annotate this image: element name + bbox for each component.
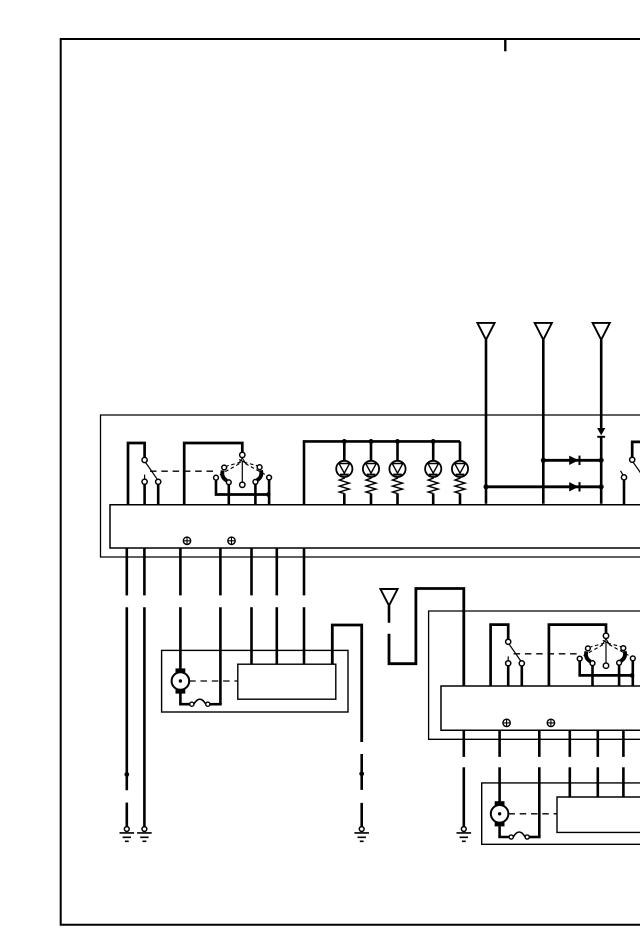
- rotary SW2 right wiper top contact: [621, 646, 626, 651]
- wire V4 upper: [568, 730, 571, 757]
- wire W7 lower: [303, 607, 306, 664]
- node W1 splice dot: [124, 772, 129, 777]
- wire ground lead lower: [360, 803, 363, 827]
- switch S1 contact stub: [144, 475, 146, 479]
- wire top-tick: [504, 39, 506, 51]
- wire W1 middle: [126, 607, 129, 790]
- rotary SW1 common contact: [240, 452, 245, 457]
- wire from A2 down: [542, 340, 545, 504]
- wire W1 lower: [126, 803, 129, 827]
- switch S2 feed wire (staple, clipped): [632, 442, 640, 457]
- rotary SW2 pivot marks: [602, 639, 609, 645]
- rotary SW1 right wiper (banana): [257, 470, 261, 480]
- rotary SW1 far right contact: [267, 475, 272, 480]
- connector triangle A4: [380, 589, 397, 606]
- wire SW1 left wiper to connector: [228, 485, 231, 505]
- wire SW2 right wiper to connector: [618, 665, 621, 686]
- circuit breaker CB2: [509, 832, 529, 839]
- rotary SW2 dashed actuating rays: [583, 643, 630, 656]
- node bus dot L1: [342, 439, 347, 444]
- connector triangle A1: [477, 323, 494, 340]
- wire breaker to V3: [529, 836, 540, 839]
- wire V4 lower: [568, 767, 571, 797]
- component box (master switch outline): [101, 415, 640, 557]
- rotary SW1 dashed actuating rays: [219, 462, 266, 475]
- rotary SW2 center bottom contact: [603, 663, 608, 668]
- motor M2: [491, 801, 509, 826]
- rotary SW1 right wiper top contact: [257, 465, 262, 470]
- rotary SW1 right wiper bottom contact: [253, 480, 258, 485]
- wire W2 lower: [143, 607, 146, 826]
- diode D1 (pointing right): [569, 456, 578, 465]
- wire V5 lower: [596, 767, 599, 797]
- switch S2 blade: [633, 462, 640, 478]
- connector bar (rear): [441, 686, 640, 730]
- rotary SW1 left wiper bottom contact: [226, 480, 231, 485]
- wire S3 left throw to connector: [507, 666, 510, 686]
- LED L3 with resistor R3: [389, 441, 405, 504]
- connector bar (middle): [110, 505, 640, 548]
- rotary SW2 right wiper bottom contact: [617, 660, 622, 665]
- connector triangle A3: [593, 323, 610, 340]
- wire V1 lower: [462, 767, 465, 826]
- rotary switch SW1 feed wire (staple): [184, 443, 242, 505]
- terminal screw B2: [228, 537, 235, 544]
- wire SW2 left wiper to connector: [591, 666, 594, 686]
- wire V3 lower to breaker: [538, 767, 541, 837]
- rotary switch SW2 feed wire (staple): [549, 625, 606, 686]
- rotary SW1 center bottom contact: [240, 482, 245, 487]
- wire from A1 down to junction row: [485, 340, 488, 504]
- LED L1 with resistor R1: [336, 441, 352, 504]
- wire S1 left throw to connector: [143, 484, 146, 504]
- node ground lead splice dot: [359, 771, 364, 776]
- wire W7 upper: [303, 548, 306, 595]
- wire W3 lower to motor: [179, 607, 182, 669]
- wire V2 lower to motor: [498, 767, 501, 802]
- rotary SW1 far left contact: [214, 475, 219, 480]
- component box (motor unit 1): [162, 650, 348, 712]
- switch S3 common contact: [506, 639, 511, 644]
- switch S2 contact stub: [621, 471, 623, 475]
- wire W3 upper: [179, 548, 182, 595]
- wire W2 upper: [143, 548, 146, 595]
- ground G2: [137, 827, 152, 842]
- motor M1: [172, 668, 190, 693]
- control unit U2 (clipped): [557, 797, 640, 832]
- switch S1 throw contact left: [142, 479, 147, 484]
- wire SW2 far-right contact to connector: [631, 661, 634, 686]
- LED L5 with resistor R5: [452, 441, 468, 504]
- terminal screw B1: [183, 537, 190, 544]
- rotary SW2 common contact: [603, 633, 608, 638]
- wire W1 upper: [126, 548, 129, 595]
- wire S2 throw to connector: [623, 480, 626, 505]
- rotary SW2 center stem: [605, 641, 607, 663]
- component box (motor unit 2, clipped): [482, 783, 640, 844]
- LED L2 with resistor R2: [363, 441, 379, 504]
- rotary SW2 left wiper top contact: [586, 646, 591, 651]
- wire U1 output staple to ground lead: [332, 625, 361, 742]
- rotary SW2 far left contact: [577, 656, 582, 661]
- ground G4: [457, 827, 472, 842]
- switch S2 common contact: [630, 457, 635, 462]
- wire from A4 to rear block (Z route): [389, 589, 464, 687]
- rotary SW1 center stem: [241, 461, 243, 483]
- wire from A3 down (upper part): [600, 340, 603, 429]
- switch S2 throw contact: [621, 475, 626, 480]
- node junction dot: [599, 484, 604, 489]
- wire V6 lower: [622, 767, 625, 797]
- switch S1 throw contact right: [156, 479, 161, 484]
- rotary SW2 far right contact: [630, 656, 635, 661]
- wire LED supply bus: [304, 441, 460, 504]
- wire SW2 far-left contact to bus: [578, 661, 581, 674]
- diode D3 (cathode down): [597, 428, 605, 435]
- wire horizontal with diode D1: [543, 459, 601, 462]
- switch S3 feed wire (staple): [491, 625, 509, 686]
- rotary SW1 left wiper top contact: [222, 465, 227, 470]
- rotary SW1 left wiper (banana): [222, 471, 227, 481]
- wire M1 to breaker: [180, 694, 189, 705]
- terminal screw B4: [547, 719, 554, 726]
- wire SW1 far-left contact to bus: [215, 480, 218, 493]
- control unit U1: [238, 664, 336, 699]
- wire W5 upper: [250, 548, 253, 595]
- dashed mechanical link S1 to SW1: [150, 470, 217, 472]
- wire SW2 bottom bus: [578, 674, 634, 677]
- rotary SW2 left wiper bottom contact: [590, 661, 595, 666]
- LED L4 with resistor R4: [425, 441, 441, 504]
- wire V2 upper: [498, 730, 501, 757]
- wire W4 lower to breaker: [219, 607, 222, 704]
- wire W4 upper: [219, 548, 222, 595]
- dashed mechanical link S3 to SW2: [514, 653, 581, 655]
- wire SW1 bottom bus: [215, 493, 271, 496]
- diode D2 (pointing right): [569, 482, 578, 491]
- wire V5 upper: [596, 730, 599, 757]
- node bus dot L2: [369, 439, 374, 444]
- connector triangle A2: [535, 323, 552, 340]
- component box (rear switch outline): [429, 611, 640, 739]
- switch S3 throw contact right: [519, 661, 524, 666]
- rotary SW1 pivot marks: [239, 458, 246, 464]
- wire SW1 right wiper to connector: [254, 484, 257, 504]
- node bus dot L4: [431, 439, 436, 444]
- ground G3: [354, 827, 369, 842]
- switch S1 common contact: [142, 457, 147, 462]
- wire from A4 upper: [388, 606, 391, 623]
- wire V3 upper: [538, 730, 541, 757]
- node junction dot: [541, 458, 546, 463]
- node junction dot: [484, 484, 489, 489]
- terminal screw B3: [503, 719, 510, 726]
- dashed mechanical link M1 to U1: [189, 680, 238, 682]
- node junction dot: [599, 458, 604, 463]
- switch S3 contact stub: [507, 656, 509, 660]
- switch S1 feed wire (staple): [128, 443, 145, 505]
- wire W6 lower: [275, 607, 278, 664]
- switch S3 blade: [509, 644, 521, 661]
- rotary SW2 left wiper (banana): [586, 652, 591, 662]
- wire S3 right throw to connector: [520, 666, 523, 686]
- node SW2 bus junction dot: [630, 673, 635, 678]
- wire breaker to W4: [210, 703, 222, 706]
- circuit breaker CB1: [190, 699, 210, 706]
- ground G1: [120, 827, 135, 842]
- wire W6 upper: [275, 548, 278, 595]
- wire SW1 far-right contact to connector: [268, 480, 271, 505]
- dashed mechanical link M2 to U2: [508, 813, 557, 815]
- wire M2 to breaker: [500, 826, 510, 837]
- wire ground lead middle: [360, 754, 363, 790]
- node SW1 bus junction dot: [266, 492, 271, 497]
- rotary SW2 right wiper (banana): [621, 651, 625, 661]
- wire horizontal with diode D2: [486, 485, 601, 488]
- wire S1 right throw to connector: [157, 484, 160, 504]
- wire W5 lower: [250, 607, 253, 664]
- wire V1 upper: [462, 730, 465, 757]
- switch S3 throw contact left: [506, 661, 511, 666]
- wire V6 upper: [622, 730, 625, 757]
- switch S1 blade: [146, 463, 158, 480]
- node bus dot L3: [395, 439, 400, 444]
- wire from D3 down to bus: [600, 436, 603, 504]
